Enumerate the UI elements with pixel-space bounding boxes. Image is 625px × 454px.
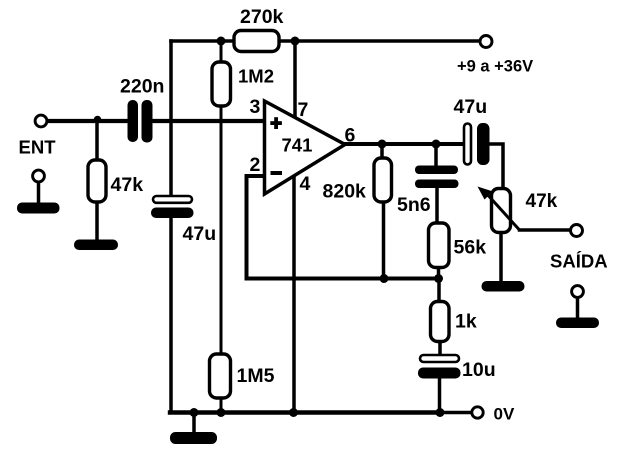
- svg-text:1M5: 1M5: [237, 365, 275, 387]
- svg-text:56k: 56k: [454, 237, 487, 259]
- svg-text:47u: 47u: [183, 223, 217, 245]
- svg-text:6: 6: [345, 125, 356, 147]
- svg-text:741: 741: [282, 135, 313, 156]
- svg-text:1k: 1k: [455, 311, 477, 333]
- svg-text:1M2: 1M2: [238, 66, 274, 87]
- svg-text:47k: 47k: [111, 174, 144, 196]
- svg-text:5n6: 5n6: [397, 194, 431, 216]
- svg-text:2: 2: [250, 154, 261, 176]
- svg-text:220n: 220n: [120, 76, 164, 98]
- svg-text:7: 7: [298, 99, 309, 121]
- svg-text:47u: 47u: [454, 96, 488, 118]
- svg-text:270k: 270k: [240, 6, 284, 28]
- svg-text:0V: 0V: [494, 405, 515, 424]
- svg-text:+9 a +36V: +9 a +36V: [457, 58, 533, 76]
- svg-text:ENT: ENT: [19, 137, 57, 158]
- svg-text:820k: 820k: [323, 181, 367, 203]
- svg-text:4: 4: [300, 173, 311, 195]
- svg-text:10u: 10u: [462, 359, 496, 381]
- svg-text:SAÍDA: SAÍDA: [550, 251, 608, 272]
- svg-text:47k: 47k: [526, 191, 558, 212]
- svg-text:3: 3: [250, 96, 261, 118]
